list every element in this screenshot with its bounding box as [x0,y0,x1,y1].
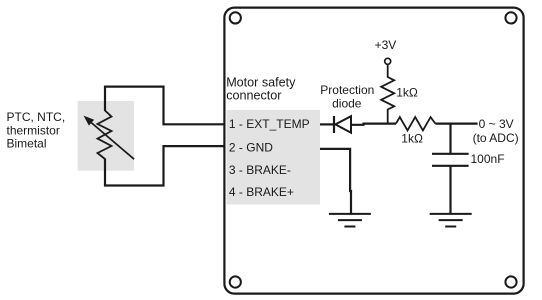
svg-text:1 - EXT_TEMP: 1 - EXT_TEMP [229,117,310,131]
pin 2 label GND [229,141,273,155]
wire capacitor to ground [449,167,451,214]
protection diode D1 [334,116,351,133]
label 1kOhm (vertical resistor) [396,85,418,99]
label 100nF [471,152,505,166]
svg-text:Protection: Protection [320,83,374,97]
resistor R1 1k pull-up (vertical) [381,64,394,124]
mounting hole top-left [230,12,241,23]
label 1kOhm (horizontal resistor) [401,132,423,146]
svg-text:1kΩ: 1kΩ [401,132,423,146]
svg-text:Bimetal: Bimetal [7,136,47,150]
svg-text:2 - GND: 2 - GND [229,141,273,155]
label output 0~3V to ADC [473,117,519,145]
wire thermistor top to pin 1 [105,87,224,125]
wire thermistor bottom to pin 2 [105,146,224,185]
wire resistor to output node [435,122,477,124]
wire pin 2 GND to ground [320,149,351,214]
capacitor C1 100nF [432,154,469,166]
ground symbol (connector GND) [329,214,371,227]
label Protection diode [320,83,374,110]
+3V terminal [375,38,397,64]
ground symbol (capacitor) [430,214,472,227]
svg-text:+3V: +3V [375,38,397,52]
svg-text:4 - BRAKE+: 4 - BRAKE+ [229,185,294,199]
thermistor highlight box [78,101,134,171]
wire node down to capacitor [449,124,451,153]
wire pin 1 to diode [320,123,334,125]
svg-text:connector: connector [226,89,281,103]
mounting hole bottom-left [230,276,241,287]
pin 1 label EXT_TEMP [229,117,310,131]
mounting hole bottom-right [505,276,516,287]
thermistor RT1 [85,111,135,160]
svg-text:Motor safety: Motor safety [226,75,296,89]
resistor R2 1k series (horizontal) [396,117,435,130]
wire diode to node (with jog) [351,124,396,125]
svg-text:thermistor: thermistor [7,123,60,137]
svg-text:diode: diode [332,96,362,110]
svg-text:(to ADC): (to ADC) [473,131,519,145]
board outline [224,8,523,294]
label Motor safety connector [226,75,296,102]
svg-text:PTC, NTC,: PTC, NTC, [7,110,66,124]
mounting hole top-right [505,12,516,23]
svg-text:3 - BRAKE-: 3 - BRAKE- [229,163,291,177]
svg-text:100nF: 100nF [471,152,505,166]
svg-text:1kΩ: 1kΩ [396,85,418,99]
svg-text:0 ~ 3V: 0 ~ 3V [479,117,514,131]
pin 4 label BRAKE+ [229,185,294,199]
label PTC/NTC thermistor [7,110,66,150]
connector highlight box [227,110,321,205]
pin 3 label BRAKE- [229,163,291,177]
